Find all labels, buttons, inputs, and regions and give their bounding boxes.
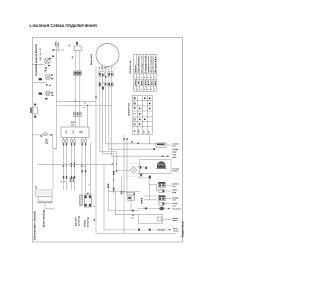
circuit breaker CB on left border [33, 107, 37, 114]
svg-text:Engine switch: Engine switch [90, 54, 93, 65]
wire y149 with marks [153, 148, 155, 150]
svg-text:2: 2 [137, 76, 138, 79]
svg-text:6: 6 [151, 76, 152, 79]
main winding dashed box [36, 190, 53, 196]
connector table row2/4 marks [134, 76, 155, 91]
connector blob + arrow [46, 84, 48, 86]
AC label dot [132, 215, 133, 216]
marks on receptacle feed [108, 184, 110, 186]
ignition labels [172, 183, 179, 194]
connector marks near receptacle [121, 191, 143, 204]
svg-text:W: W [62, 165, 65, 167]
label left of L1 [39, 78, 42, 80]
pilot lamp L1 [45, 74, 50, 79]
AVR connectors below [63, 140, 87, 143]
wire labels on x94 line [93, 205, 96, 221]
exciter winding [80, 195, 83, 206]
oil switch box [140, 160, 172, 174]
wires from box down [75, 51, 80, 72]
main winding hatched strip [38, 196, 52, 203]
switch table [132, 96, 152, 135]
wire labels top-left [54, 41, 60, 47]
marks on x124/x127 lines [123, 138, 124, 140]
charge labels [172, 196, 178, 207]
svg-text:Br: Br [151, 79, 154, 85]
svg-text:Exciter: Exciter [75, 217, 78, 226]
svg-text:Oil sensor: Oil sensor [137, 56, 140, 73]
relay label [172, 142, 179, 147]
svg-text:3: 3 [141, 88, 142, 91]
engine connector marks row2 [99, 83, 113, 90]
connector table [134, 54, 157, 91]
connector pairs mid-bottom [63, 170, 86, 179]
svg-text:winding: winding [77, 215, 80, 226]
svg-text:CONNECTOR VIEW: CONNECTOR VIEW [129, 61, 132, 74]
engine connector frames row1 [99, 72, 114, 77]
svg-text:Oil sensor: Oil sensor [172, 207, 181, 210]
marks in oil box [145, 167, 147, 170]
wires from SW1 [33, 47, 65, 65]
svg-text:COMBINATION SW: COMBINATION SW [128, 103, 131, 116]
AVR internal marks [65, 130, 74, 134]
svg-text:Earth: Earth [154, 53, 157, 72]
svg-text:Ignition coil: Ignition coil [147, 56, 150, 73]
SW1 terminal marks [44, 49, 54, 71]
svg-text:7: 7 [154, 88, 155, 91]
connector table row3 vertical texts [134, 77, 157, 86]
svg-text:1: 1 [134, 76, 135, 79]
svg-text:Control panel block: Control panel block [35, 43, 38, 76]
wire y156 with dot and arrow [162, 155, 164, 157]
AVR box [61, 127, 89, 137]
svg-text:switch: switch [172, 170, 178, 173]
svg-text:unit: unit [172, 145, 176, 148]
svg-text:4: 4 [144, 76, 145, 79]
wire labels above winding [60, 177, 75, 182]
svg-text:AVR: AVR [71, 121, 76, 124]
svg-text:Engine block: Engine block [182, 221, 185, 237]
wire labels under engine [98, 66, 113, 68]
mid-bottom long wires [88, 67, 176, 234]
L2 terminal marks [51, 92, 53, 96]
svg-text:Wire: Wire [134, 80, 137, 86]
dark dot on bus [132, 210, 134, 212]
pilot lamp L2 [46, 91, 51, 96]
engine circle [96, 44, 119, 67]
wire to border [33, 81, 48, 83]
svg-text:coil: coil [172, 199, 176, 202]
svg-text:3: 3 [141, 76, 142, 79]
relay box [156, 143, 166, 147]
charge coil group [144, 196, 157, 200]
main winding arrow [35, 186, 37, 189]
squiggle on x113.6 [113, 178, 114, 182]
svg-text:1: 1 [134, 88, 135, 91]
svg-text:5: 5 [147, 76, 148, 79]
wires continue down [75, 75, 80, 127]
svg-text:R/W: R/W [57, 43, 60, 47]
connector marks on x113.6 [113, 170, 117, 191]
arrow on x96 wire [95, 97, 97, 100]
fuse mark above engine-switch box [76, 42, 78, 45]
bridge rectifier dashed box [127, 164, 141, 177]
wire labels mid [62, 162, 87, 167]
svg-text:Bk/R: Bk/R [69, 177, 72, 182]
svg-text:winding: winding [86, 216, 89, 227]
connector table header vertical texts [134, 53, 157, 72]
field winding [84, 195, 91, 207]
wire code labels mid-right [111, 163, 128, 193]
svg-text:Generator block: Generator block [33, 210, 36, 240]
receptacle [127, 193, 134, 201]
svg-text:4: 4 [144, 88, 145, 91]
switch table marks [134, 97, 151, 125]
blob below L2 [45, 98, 47, 100]
fuel valve line with arrow [33, 134, 51, 136]
label left of L2 [39, 93, 42, 95]
svg-text:2: 2 [137, 88, 138, 91]
oil sensor dome [157, 161, 166, 168]
long horizontal bus [38, 163, 114, 165]
border frame [33, 38, 183, 242]
svg-text:coil: coil [172, 185, 176, 188]
svg-text:6: 6 [151, 88, 152, 91]
wires from AVR down [64, 137, 86, 195]
engine connector frames row2 [99, 82, 114, 86]
L1 terminal marks [51, 74, 53, 79]
fuel pump circles [73, 112, 77, 116]
svg-text:Charge coil: Charge coil [140, 56, 143, 73]
svg-text:Lamp coil: Lamp coil [144, 55, 147, 72]
switch position labels [39, 47, 42, 60]
horizontal links panel-engine [57, 101, 112, 127]
svg-text:No.: No. [134, 62, 137, 72]
svg-text:cock: cock [172, 156, 176, 159]
ignition coil group [149, 183, 156, 185]
engine stop switch box [74, 46, 81, 51]
oil sensor line [138, 208, 169, 210]
wires below engine connectors [100, 67, 167, 195]
svg-text:unit: unit [71, 124, 75, 127]
svg-text:coil: coil [172, 204, 176, 207]
svg-text:switch: switch [173, 229, 179, 232]
svg-text:Stop switch: Stop switch [151, 55, 154, 73]
marks under oil box [140, 174, 142, 177]
oil switch label [172, 167, 179, 172]
svg-text:Main winding: Main winding [43, 209, 46, 227]
svg-text:7: 7 [154, 76, 155, 79]
svg-text:plug: plug [172, 191, 176, 194]
starter box [108, 186, 140, 215]
svg-text:motor: motor [172, 219, 177, 222]
panel wires down [53, 47, 59, 191]
svg-text:DC: DC [79, 131, 83, 134]
bridge rectifier diamond [130, 167, 137, 174]
svg-text:5: 5 [147, 88, 148, 91]
tick left of engine-switch box [68, 44, 71, 46]
svg-text:3: 3 [63, 181, 66, 182]
svg-text:Field: Field [84, 219, 87, 227]
engine connector marks row1 [99, 73, 113, 78]
key switch SW1 [44, 58, 50, 64]
receptacle wires [121, 177, 131, 211]
marks on relay feed [131, 141, 133, 142]
hatched blob below valve [45, 139, 48, 144]
svg-text:1-ФАЗНАЯ СХЕМА ПОДКЛЮЧЕНИЯ: 1-ФАЗНАЯ СХЕМА ПОДКЛЮЧЕНИЯ [29, 23, 97, 28]
connector pair boxes [74, 71, 78, 75]
svg-text:Bk/W: Bk/W [72, 177, 75, 182]
stop switch dashed line [135, 229, 171, 231]
